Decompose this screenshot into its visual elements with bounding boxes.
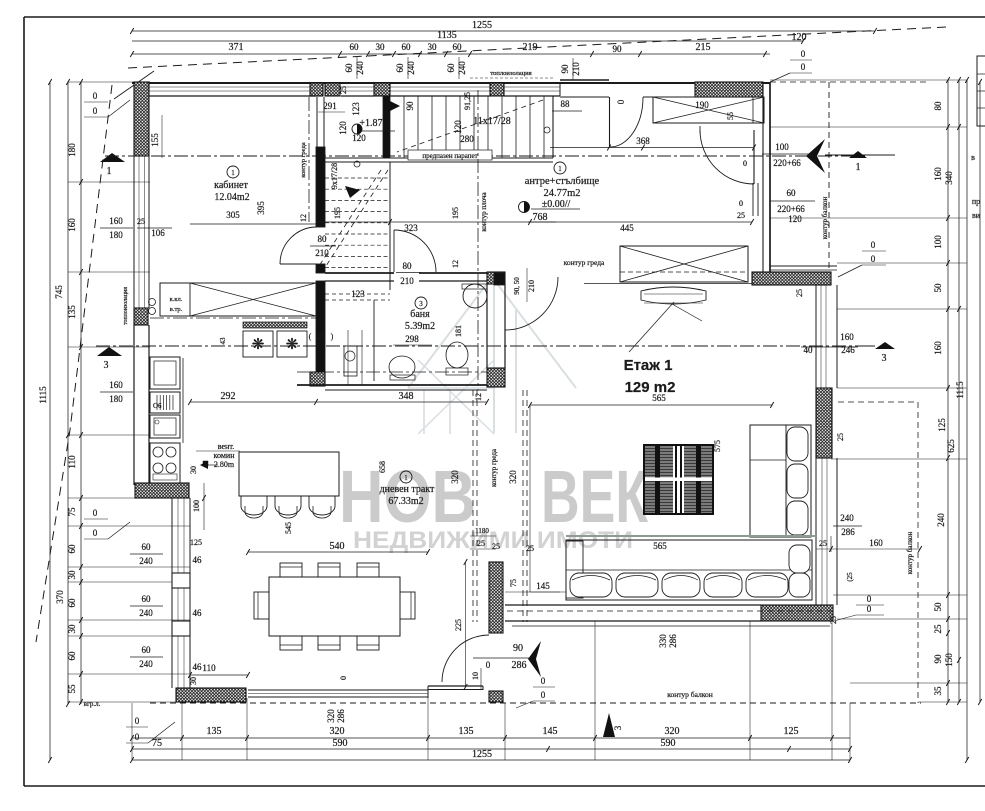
svg-text:вент.: вент. bbox=[218, 442, 234, 451]
svg-text:(25: (25 bbox=[846, 572, 854, 582]
svg-text:160: 160 bbox=[109, 380, 123, 390]
svg-text:1: 1 bbox=[856, 162, 861, 173]
svg-text:50: 50 bbox=[933, 602, 943, 612]
svg-text:395: 395 bbox=[256, 201, 266, 215]
svg-text:348: 348 bbox=[399, 391, 414, 402]
svg-text:445: 445 bbox=[620, 223, 634, 233]
svg-text:219: 219 bbox=[523, 42, 538, 53]
svg-text:0: 0 bbox=[541, 676, 546, 686]
svg-text:91,25: 91,25 bbox=[463, 92, 472, 110]
svg-text:1: 1 bbox=[231, 169, 235, 177]
svg-text:60: 60 bbox=[787, 188, 797, 198]
svg-text:25: 25 bbox=[492, 542, 500, 551]
svg-text:88: 88 bbox=[561, 99, 571, 109]
svg-text:30: 30 bbox=[428, 42, 438, 52]
svg-text:комин: комин bbox=[214, 451, 236, 460]
svg-text:240: 240 bbox=[406, 61, 416, 75]
svg-text:): ) bbox=[331, 332, 334, 341]
svg-text:60: 60 bbox=[142, 542, 152, 552]
svg-text:3: 3 bbox=[104, 360, 109, 371]
svg-text:240: 240 bbox=[139, 608, 153, 618]
svg-text:60: 60 bbox=[67, 598, 77, 608]
svg-text:240: 240 bbox=[139, 556, 153, 566]
svg-text:10: 10 bbox=[471, 672, 480, 680]
svg-text:180: 180 bbox=[109, 394, 123, 404]
svg-text:90: 90 bbox=[405, 101, 415, 111]
svg-text:125: 125 bbox=[937, 418, 947, 432]
svg-text:120: 120 bbox=[792, 32, 807, 43]
svg-text:60: 60 bbox=[67, 544, 77, 554]
svg-text:292: 292 bbox=[221, 391, 236, 402]
svg-text:0: 0 bbox=[801, 49, 806, 59]
svg-text:210: 210 bbox=[527, 280, 536, 292]
svg-text:0: 0 bbox=[135, 732, 140, 742]
svg-text:1115: 1115 bbox=[38, 386, 48, 404]
svg-text:60: 60 bbox=[142, 645, 152, 655]
svg-text:286: 286 bbox=[841, 527, 855, 537]
svg-text:0: 0 bbox=[801, 62, 806, 72]
svg-text:40: 40 bbox=[804, 345, 814, 355]
svg-text:12: 12 bbox=[451, 260, 460, 268]
svg-text:1: 1 bbox=[107, 166, 112, 177]
svg-text:пр: пр bbox=[972, 197, 980, 206]
svg-text:3: 3 bbox=[613, 725, 623, 730]
svg-text:46: 46 bbox=[193, 555, 203, 565]
svg-text:90: 90 bbox=[513, 643, 523, 654]
svg-text:к.кл.: к.кл. bbox=[170, 296, 183, 303]
svg-text:0: 0 bbox=[541, 690, 546, 700]
svg-text:60: 60 bbox=[142, 594, 152, 604]
svg-text:1115: 1115 bbox=[955, 381, 965, 399]
svg-text:30: 30 bbox=[67, 570, 77, 580]
svg-text:123: 123 bbox=[351, 102, 361, 116]
svg-text:246: 246 bbox=[841, 345, 855, 355]
svg-text:240: 240 bbox=[840, 513, 854, 523]
svg-text:0: 0 bbox=[93, 106, 98, 116]
svg-text:контур греда: контур греда bbox=[300, 142, 307, 177]
svg-text:в.тр.: в.тр. bbox=[170, 306, 183, 313]
svg-text:120: 120 bbox=[338, 121, 348, 135]
svg-text:220+66: 220+66 bbox=[773, 158, 801, 168]
svg-text:0: 0 bbox=[871, 254, 876, 264]
svg-text:25: 25 bbox=[737, 211, 745, 220]
svg-text:30: 30 bbox=[376, 42, 386, 52]
svg-text:25: 25 bbox=[137, 217, 145, 226]
svg-text:125: 125 bbox=[190, 538, 202, 547]
svg-text:545: 545 bbox=[284, 522, 293, 534]
svg-text:24.77m2: 24.77m2 bbox=[543, 188, 580, 199]
svg-text:Етаж 1: Етаж 1 bbox=[624, 357, 673, 374]
svg-text:1: 1 bbox=[558, 165, 562, 173]
svg-text:320: 320 bbox=[326, 709, 336, 723]
svg-text:60: 60 bbox=[446, 63, 456, 73]
svg-text:0: 0 bbox=[486, 660, 491, 670]
svg-text:286: 286 bbox=[336, 709, 346, 723]
svg-text:110: 110 bbox=[67, 455, 77, 469]
svg-text:0: 0 bbox=[616, 99, 626, 104]
svg-text:0: 0 bbox=[93, 91, 98, 101]
svg-text:280: 280 bbox=[460, 134, 474, 144]
svg-text:320: 320 bbox=[508, 470, 518, 484]
svg-text:80: 80 bbox=[933, 101, 943, 111]
svg-text:135: 135 bbox=[207, 726, 222, 737]
svg-text:25: 25 bbox=[526, 544, 534, 553]
svg-text:160: 160 bbox=[933, 341, 943, 355]
svg-text:240: 240 bbox=[139, 659, 153, 669]
svg-text:25: 25 bbox=[795, 289, 804, 297]
svg-text:240: 240 bbox=[355, 61, 365, 75]
svg-text:25: 25 bbox=[819, 539, 827, 548]
svg-text:658: 658 bbox=[378, 461, 387, 473]
svg-text:181: 181 bbox=[454, 325, 463, 337]
svg-text:60: 60 bbox=[402, 42, 412, 52]
svg-text:5.39m2: 5.39m2 bbox=[405, 321, 435, 332]
svg-text:60: 60 bbox=[344, 63, 354, 73]
svg-text:25: 25 bbox=[836, 433, 845, 441]
svg-text:145: 145 bbox=[543, 726, 558, 737]
svg-text:30: 30 bbox=[189, 677, 198, 685]
svg-text:135: 135 bbox=[459, 726, 474, 737]
svg-text:30: 30 bbox=[67, 624, 77, 634]
svg-text:контур балкон: контур балкон bbox=[821, 196, 829, 239]
svg-text:1255: 1255 bbox=[472, 20, 492, 31]
svg-text:1135: 1135 bbox=[437, 30, 457, 41]
svg-text:в: в bbox=[971, 153, 975, 162]
svg-text:75: 75 bbox=[67, 507, 77, 517]
svg-text:90: 90 bbox=[613, 44, 623, 54]
svg-text:топлоизолация: топлоизолация bbox=[490, 70, 531, 77]
svg-text:67.33m2: 67.33m2 bbox=[388, 496, 423, 507]
svg-text:12: 12 bbox=[299, 214, 308, 222]
svg-text:80: 80 bbox=[403, 261, 413, 271]
svg-text:330: 330 bbox=[658, 634, 668, 648]
svg-text:145: 145 bbox=[536, 581, 550, 591]
svg-text:0: 0 bbox=[93, 508, 98, 518]
svg-text:30: 30 bbox=[189, 466, 198, 474]
svg-text:контур греда: контур греда bbox=[490, 448, 498, 487]
svg-text:190: 190 bbox=[695, 100, 709, 110]
svg-text:0: 0 bbox=[743, 159, 747, 168]
svg-text:контур балкон: контур балкон bbox=[906, 531, 914, 574]
svg-text:160: 160 bbox=[869, 538, 883, 548]
svg-text:370: 370 bbox=[55, 590, 65, 604]
svg-text:90, 50: 90, 50 bbox=[513, 277, 521, 295]
svg-text:100: 100 bbox=[192, 500, 201, 512]
svg-text:0: 0 bbox=[339, 676, 348, 680]
svg-text:12.04m2: 12.04m2 bbox=[214, 192, 249, 203]
svg-text:0: 0 bbox=[93, 528, 98, 538]
svg-text:90: 90 bbox=[560, 64, 570, 74]
svg-text:210: 210 bbox=[400, 276, 414, 286]
svg-text:контур плоча: контур плоча bbox=[480, 192, 488, 232]
svg-text:180: 180 bbox=[67, 143, 77, 157]
svg-text:590: 590 bbox=[333, 738, 348, 749]
svg-text:0: 0 bbox=[871, 240, 876, 250]
svg-text:160: 160 bbox=[840, 332, 854, 342]
svg-text:286: 286 bbox=[668, 634, 678, 648]
svg-text:вгр.л.: вгр.л. bbox=[84, 700, 101, 708]
svg-text:25: 25 bbox=[477, 539, 485, 548]
svg-text:75: 75 bbox=[152, 738, 162, 749]
svg-text:565: 565 bbox=[653, 541, 667, 551]
svg-text:3: 3 bbox=[419, 300, 423, 308]
svg-text:0: 0 bbox=[135, 716, 140, 726]
svg-text:46: 46 bbox=[193, 662, 203, 672]
svg-text:590: 590 bbox=[661, 738, 676, 749]
svg-text:106: 106 bbox=[151, 228, 165, 238]
svg-text:160: 160 bbox=[67, 218, 77, 232]
svg-text:❋: ❋ bbox=[252, 337, 265, 353]
svg-text:320: 320 bbox=[330, 726, 345, 737]
svg-text:50: 50 bbox=[933, 283, 943, 293]
svg-text:60: 60 bbox=[350, 42, 360, 52]
svg-text:дневен тракт: дневен тракт bbox=[380, 484, 435, 495]
svg-text:625: 625 bbox=[946, 439, 956, 453]
svg-text:75: 75 bbox=[509, 579, 518, 587]
svg-text:1: 1 bbox=[404, 474, 408, 482]
svg-text:1180: 1180 bbox=[475, 527, 489, 535]
svg-text:25: 25 bbox=[933, 624, 943, 634]
svg-text:120: 120 bbox=[788, 214, 802, 224]
svg-text:9x17/28: 9x17/28 bbox=[330, 163, 339, 189]
svg-text:125: 125 bbox=[784, 726, 799, 737]
svg-text:О6: О6 bbox=[153, 402, 162, 410]
svg-text:320: 320 bbox=[665, 726, 680, 737]
svg-text:745: 745 bbox=[54, 285, 64, 299]
svg-text:контур балкон: контур балкон bbox=[667, 690, 713, 699]
svg-text:0: 0 bbox=[867, 604, 872, 614]
svg-text:225: 225 bbox=[454, 619, 463, 631]
svg-text:0: 0 bbox=[739, 199, 743, 208]
svg-text:25: 25 bbox=[317, 332, 325, 341]
svg-text:371: 371 bbox=[229, 42, 244, 53]
svg-text:контур греда: контур греда bbox=[564, 258, 605, 267]
svg-text:11x17/28: 11x17/28 bbox=[473, 116, 510, 127]
svg-text:55: 55 bbox=[726, 112, 735, 120]
svg-text:55: 55 bbox=[67, 684, 77, 694]
svg-text:2.80m: 2.80m bbox=[214, 460, 235, 469]
svg-text:286: 286 bbox=[512, 660, 527, 671]
svg-text:220+66: 220+66 bbox=[777, 204, 805, 214]
svg-text:60: 60 bbox=[67, 651, 77, 661]
svg-text:80: 80 bbox=[318, 234, 328, 244]
svg-text:+1.87: +1.87 bbox=[359, 118, 382, 129]
svg-text:305: 305 bbox=[226, 210, 240, 220]
svg-text:320: 320 bbox=[450, 470, 460, 484]
svg-text:565: 565 bbox=[652, 393, 666, 403]
svg-text:240: 240 bbox=[457, 61, 467, 75]
svg-text:575: 575 bbox=[713, 440, 722, 452]
svg-text:100: 100 bbox=[775, 142, 789, 152]
svg-text:❋: ❋ bbox=[286, 337, 299, 353]
svg-text:120: 120 bbox=[352, 133, 366, 143]
svg-text:195: 195 bbox=[451, 207, 460, 219]
svg-text:155: 155 bbox=[150, 133, 160, 147]
svg-text:(: ( bbox=[309, 332, 312, 341]
svg-text:35: 35 bbox=[933, 686, 943, 696]
svg-text:210: 210 bbox=[571, 62, 581, 76]
svg-text:368: 368 bbox=[636, 136, 650, 146]
svg-text:215: 215 bbox=[696, 42, 711, 53]
svg-text:298: 298 bbox=[405, 334, 419, 344]
svg-text:768: 768 bbox=[533, 212, 548, 223]
svg-text:135: 135 bbox=[67, 305, 77, 319]
svg-text:540: 540 bbox=[330, 541, 345, 552]
svg-text:60: 60 bbox=[453, 42, 463, 52]
svg-text:3: 3 bbox=[882, 353, 887, 364]
svg-text:160: 160 bbox=[109, 216, 123, 226]
svg-text:антре+стълбище: антре+стълбище bbox=[525, 176, 600, 187]
svg-text:180: 180 bbox=[109, 230, 123, 240]
svg-text:баня: баня bbox=[410, 309, 430, 320]
svg-text:ви: ви bbox=[972, 211, 981, 220]
svg-text:ВЕК: ВЕК bbox=[541, 455, 649, 538]
svg-text:предпазен парапет: предпазен парапет bbox=[422, 152, 477, 160]
svg-text:1255: 1255 bbox=[472, 749, 492, 760]
svg-text:160: 160 bbox=[933, 167, 943, 181]
svg-text:46: 46 bbox=[193, 608, 203, 618]
svg-text:110: 110 bbox=[202, 663, 216, 673]
svg-text:60: 60 bbox=[395, 63, 405, 73]
svg-text:кабинет: кабинет bbox=[214, 180, 248, 191]
svg-text:150: 150 bbox=[944, 653, 954, 667]
svg-text:240: 240 bbox=[936, 513, 946, 527]
svg-text:90: 90 bbox=[933, 654, 943, 664]
svg-text:43: 43 bbox=[219, 337, 227, 345]
svg-text:12: 12 bbox=[474, 393, 483, 401]
svg-text:±0.00//: ±0.00// bbox=[542, 199, 571, 210]
svg-text:195: 195 bbox=[333, 207, 342, 219]
svg-text:100: 100 bbox=[933, 235, 943, 249]
svg-text:129 m2: 129 m2 bbox=[625, 379, 676, 396]
svg-text:340: 340 bbox=[944, 171, 954, 185]
svg-text:291: 291 bbox=[323, 101, 337, 111]
svg-text:0: 0 bbox=[867, 594, 872, 604]
svg-text:топлоизолация: топлоизолация bbox=[123, 287, 129, 325]
